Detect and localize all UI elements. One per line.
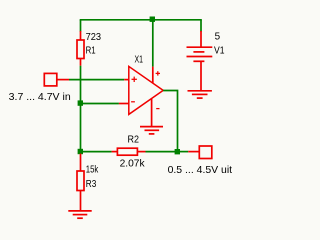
wire input to op-amp plus input (69, 79, 124, 81)
resistor R1 (77, 31, 84, 66)
input terminal pin stub (57, 79, 69, 81)
pin op-amp plus input stub (124, 79, 129, 81)
svg-text:5: 5 (215, 31, 221, 43)
node junction J4 (78, 149, 83, 154)
svg-text:2.07k: 2.07k (120, 158, 146, 170)
svg-text:R3: R3 (86, 178, 97, 190)
pin op-amp minus input stub (119, 103, 129, 105)
battery V1 (187, 31, 213, 91)
wire R1 top lead (net) (80, 20, 82, 32)
pin V- power stub (151, 99, 153, 127)
svg-text:R2: R2 (128, 134, 140, 146)
ground under R3 (68, 211, 91, 218)
svg-text:3.7 ... 4.7V in: 3.7 ... 4.7V in (9, 91, 71, 103)
ground under op-amp (140, 127, 163, 134)
ground under battery (188, 91, 212, 98)
pin V+ power stub (152, 67, 154, 84)
op-amp X1 triangle (129, 66, 163, 114)
wire junction to op-amp minus input (81, 103, 119, 105)
svg-text:V1: V1 (214, 44, 225, 56)
label minus power (156, 108, 159, 110)
input terminal (44, 73, 57, 86)
svg-text:0.5 ... 4.5V uit: 0.5 ... 4.5V uit (168, 164, 233, 176)
output terminal (199, 146, 212, 159)
svg-text:723: 723 (86, 31, 102, 43)
wire J3 to output terminal green part (178, 151, 189, 153)
wire J4 to R2 (81, 151, 112, 153)
wire J2 down rail (80, 104, 82, 152)
wire V+ drop from J1 to op-amp (152, 20, 154, 67)
wire R1 bottom to junction J2a (80, 66, 82, 104)
label plus input (132, 77, 137, 82)
svg-text:X1: X1 (135, 53, 144, 65)
resistor R3 (77, 154, 84, 211)
label plus power (156, 71, 160, 75)
wire top rail from R1 to battery (80, 19, 202, 21)
wire battery drop from top rail (200, 20, 202, 32)
resistor R2 (112, 148, 146, 155)
wire R2 to J3 (146, 151, 178, 153)
output terminal pin stub (188, 151, 199, 153)
svg-text:R1: R1 (86, 44, 96, 56)
node junction J3 (output node) (175, 149, 180, 154)
svg-text:15k: 15k (86, 163, 99, 175)
wire op-amp output (163, 91, 177, 152)
node junction J1 on top rail (150, 17, 155, 22)
node junction J2 (minus input node) (78, 100, 83, 105)
label minus input (131, 101, 135, 103)
